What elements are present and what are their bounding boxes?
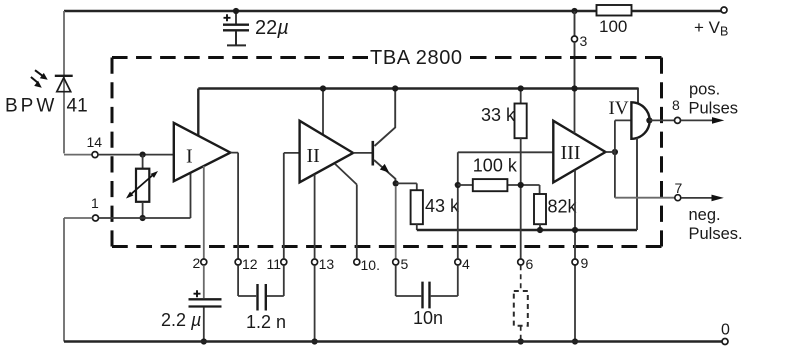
- svg-text:22µ: 22µ: [255, 17, 289, 39]
- svg-text:Pulses.: Pulses.: [689, 225, 743, 243]
- pin 7 terminal: [675, 195, 681, 201]
- wire emitter to 43k top: [396, 183, 417, 190]
- pin 2 terminal: [201, 259, 207, 265]
- wire pin 1 to ground rail: [64, 218, 92, 342]
- junction dot 33k on rail: [518, 85, 524, 91]
- junction dot 22u on rail: [233, 8, 239, 14]
- wire amp II to pin 10: [335, 164, 357, 259]
- svg-text:1.2 n: 1.2 n: [246, 312, 286, 332]
- wire pin 11 up to amp II input: [284, 153, 300, 259]
- gate IV body: [631, 102, 649, 139]
- resistor 100: [597, 5, 632, 16]
- junction dot collector on rail: [392, 85, 398, 91]
- light arrow 2 into photodiode: [31, 77, 42, 88]
- svg-text:4: 4: [462, 256, 470, 272]
- wire 82k bottom: [539, 224, 541, 230]
- wire top supply rail: [64, 10, 722, 12]
- wire left vertical from rail through photodiode to pin 14: [64, 11, 92, 155]
- wire 1.2n to pin 11: [267, 265, 284, 296]
- dashed box TBA2800 top right segment: [470, 56, 662, 59]
- svg-text:Pulses: Pulses: [689, 100, 739, 118]
- svg-text:5: 5: [401, 256, 409, 272]
- wire pin3 rail into amp III top: [574, 89, 576, 134]
- wire pot top: [142, 155, 144, 169]
- dashed external component box at pin 6: [514, 291, 528, 326]
- pin 14 terminal: [92, 152, 98, 158]
- capacitor 22u stem top: [235, 11, 237, 24]
- wire amp II output to transistor base: [353, 152, 372, 154]
- op-amp I: [174, 123, 231, 181]
- pin 8 terminal: [675, 117, 681, 123]
- junction dot amp II supply: [320, 85, 326, 91]
- wire rail bend into amp I top: [197, 89, 199, 136]
- wire pin 8 output arrow pos pulses: [681, 117, 725, 124]
- junction dot pot bottom: [140, 215, 146, 221]
- svg-text:9: 9: [581, 255, 589, 271]
- pin 13 terminal: [312, 259, 318, 265]
- junction dot 33k-100k node: [518, 182, 524, 188]
- svg-text:2.2 µ: 2.2 µ: [161, 310, 201, 330]
- dashed box TBA2800 right edge: [660, 58, 663, 247]
- junction dot pin3 internal rail: [571, 85, 577, 91]
- wire pin 7 output arrow neg pulses: [681, 195, 724, 202]
- plus sign of 2.2u: [194, 290, 201, 297]
- resistor 43k: [411, 190, 423, 224]
- svg-text:100: 100: [599, 17, 627, 36]
- junction dot pin6 ground: [518, 338, 524, 344]
- plus sign of 22u: [224, 14, 231, 21]
- transistor Q1 collector: [375, 89, 396, 147]
- wire pin 14 to amp I input: [98, 154, 174, 156]
- wire output node to pin 7: [615, 197, 675, 199]
- capacitor 2.2u plates: [189, 299, 222, 306]
- pin 12 terminal: [235, 259, 241, 265]
- wire pot bottom: [142, 202, 144, 218]
- svg-text:13: 13: [319, 256, 335, 272]
- capacitor 22u plates: [223, 25, 249, 31]
- wire pin 12 down to 1.2n: [238, 265, 256, 296]
- wire 33k bottom through node to pin 6: [520, 138, 522, 259]
- pin 3 terminal: [572, 36, 578, 42]
- wire ground rail 0: [64, 340, 722, 342]
- svg-text:14: 14: [87, 134, 103, 150]
- svg-text:0: 0: [721, 322, 730, 339]
- resistor 82k: [534, 194, 546, 224]
- wire pin 13 to ground rail: [314, 265, 316, 341]
- svg-text:41: 41: [67, 96, 88, 117]
- junction dot emitter node: [393, 180, 399, 186]
- capacitor 2.2u stem from pin 2: [203, 265, 205, 298]
- wire amp II bottom to pin 13: [314, 174, 316, 258]
- svg-text:pos.: pos.: [689, 81, 720, 99]
- photodiode BPW41 cathode bar: [55, 75, 73, 77]
- svg-text:2: 2: [193, 255, 201, 271]
- wire gate output to pin 8: [649, 119, 674, 121]
- svg-text:7: 7: [675, 180, 683, 196]
- terminal 0: [722, 339, 728, 345]
- svg-text:6: 6: [526, 256, 534, 272]
- light arrow 1 into photodiode: [35, 70, 48, 80]
- svg-text:12: 12: [242, 256, 258, 272]
- pin 4 terminal: [455, 259, 461, 265]
- transistor Q1 base bar: [371, 141, 374, 166]
- svg-text:II: II: [307, 145, 320, 167]
- svg-text:11: 11: [267, 256, 282, 272]
- wire 100k node line: [458, 185, 540, 194]
- dashed box TBA2800 top left segment: [112, 56, 368, 59]
- wire amp III input line: [458, 151, 554, 153]
- wire pin 1 to amp I bottom: [99, 173, 191, 218]
- svg-text:III: III: [561, 142, 581, 164]
- wire below amp III to pin 9: [574, 170, 576, 258]
- svg-text:82k: 82k: [548, 197, 578, 217]
- wire amp III output: [606, 151, 615, 153]
- svg-text:neg.: neg.: [689, 206, 721, 224]
- svg-text:BPW: BPW: [5, 96, 57, 117]
- junction dot pin 13 ground: [312, 338, 318, 344]
- dashed box TBA2800 left edge: [111, 58, 114, 247]
- junction dot gate IV output: [646, 117, 652, 123]
- pin 10 terminal: [354, 259, 360, 265]
- junction dot pin9 ground: [572, 338, 578, 344]
- wire output node vertical: [614, 120, 616, 197]
- op-amp III: [553, 121, 605, 183]
- pin 5 terminal: [393, 259, 399, 265]
- svg-text:100 k: 100 k: [473, 156, 518, 176]
- svg-text:TBA 2800: TBA 2800: [370, 47, 463, 69]
- pin 1 terminal: [93, 215, 99, 221]
- svg-text:I: I: [186, 146, 193, 168]
- svg-text:33 k: 33 k: [481, 105, 516, 125]
- svg-text:43 k: 43 k: [425, 196, 460, 216]
- svg-text:10n: 10n: [413, 308, 443, 328]
- pin 6 terminal: [518, 259, 524, 265]
- wire node line down to pin 4: [457, 152, 459, 258]
- wire gate IV bottom to node line: [636, 138, 638, 230]
- wire pin 9 to ground rail: [574, 265, 576, 341]
- capacitor 22u stem bottom and end bar: [227, 31, 246, 45]
- wire pin 3 to internal rail: [574, 42, 576, 89]
- op-amp II: [300, 121, 354, 183]
- dashed wire pin 6 to external component: [520, 265, 522, 291]
- internal supply rail: [198, 87, 638, 89]
- photodiode BPW41 triangle: [57, 78, 71, 92]
- wire 33k from rail: [520, 89, 522, 104]
- potentiometer body: [136, 169, 149, 202]
- junction dot 100k left: [455, 182, 461, 188]
- junction dot 2.2u ground: [201, 338, 207, 344]
- junction dot pin3 node on rail: [571, 8, 577, 14]
- potentiometer arrow: [126, 171, 158, 199]
- wire internal rail into amp II top: [322, 89, 324, 135]
- wire pin 3 from rail: [574, 11, 576, 36]
- junction dot pin9 node on bottom line: [572, 227, 578, 233]
- junction dot pot top: [140, 152, 146, 158]
- wire amp I bottom to pin 2: [203, 166, 205, 259]
- svg-text:3: 3: [580, 33, 588, 49]
- wire 43k bottom: [416, 224, 418, 230]
- pin 9 terminal: [572, 259, 578, 265]
- svg-text:10.: 10.: [361, 257, 380, 273]
- svg-text:8: 8: [672, 97, 680, 113]
- pin 11 terminal: [281, 259, 287, 265]
- wire 10n to pin 4: [431, 265, 458, 296]
- wire pin 5 down to 10n: [396, 265, 422, 296]
- transistor Q1 emitter with arrow: [374, 160, 395, 183]
- wire amp I output to pin 12: [230, 153, 238, 259]
- junction dot 82k bottom: [537, 227, 543, 233]
- resistor 33k: [515, 104, 527, 139]
- wire bottom node line: [417, 229, 637, 231]
- dashed box TBA2800 bottom edge: [112, 245, 662, 248]
- svg-text:1: 1: [91, 195, 99, 211]
- wire into gate IV input: [615, 119, 632, 121]
- dashed wire external component to ground: [520, 326, 522, 342]
- capacitor 2.2u stem to ground: [203, 308, 205, 342]
- capacitor 1.2n plates: [258, 284, 266, 311]
- terminal +VB: [721, 7, 727, 13]
- resistor 100k: [473, 179, 508, 191]
- wire emitter node to pin 5: [395, 186, 397, 259]
- capacitor 10n plates: [423, 282, 430, 309]
- svg-text:IV: IV: [609, 98, 629, 119]
- junction dot amp III output: [612, 149, 618, 155]
- wire rail bend into gate IV top: [637, 88, 639, 104]
